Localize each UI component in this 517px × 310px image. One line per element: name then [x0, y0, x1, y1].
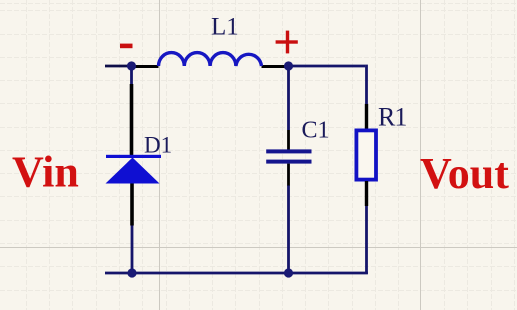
- wire right vertical upper: [365, 65, 368, 105]
- wire left column lower: [131, 225, 134, 273]
- junction dot top-mid: [284, 61, 293, 70]
- wire right vertical lower: [365, 205, 368, 274]
- wire mid column upper: [287, 66, 290, 130]
- diode D1: [106, 84, 162, 226]
- junction dot bottom-mid: [284, 268, 293, 277]
- junction dot bottom-left: [127, 268, 136, 277]
- svg-text:L1: L1: [211, 14, 239, 41]
- inductor L1: [132, 53, 288, 67]
- svg-text:R1: R1: [378, 102, 406, 131]
- wire mid column lower: [287, 185, 290, 273]
- minus mark: [120, 44, 133, 49]
- svg-text:D1: D1: [144, 133, 172, 158]
- wire top-left stub: [105, 65, 132, 68]
- wire left column upper: [130, 66, 133, 85]
- wire top mid to right corner: [289, 65, 366, 68]
- capacitor C1: [266, 130, 311, 186]
- plus mark: [276, 31, 298, 54]
- wire bottom rail: [105, 272, 368, 275]
- resistor R1: [356, 104, 376, 206]
- svg-text:C1: C1: [302, 118, 330, 144]
- svg-text:Vout: Vout: [420, 149, 509, 198]
- svg-text:Vin: Vin: [12, 148, 79, 197]
- junction dot top-left: [127, 61, 136, 70]
